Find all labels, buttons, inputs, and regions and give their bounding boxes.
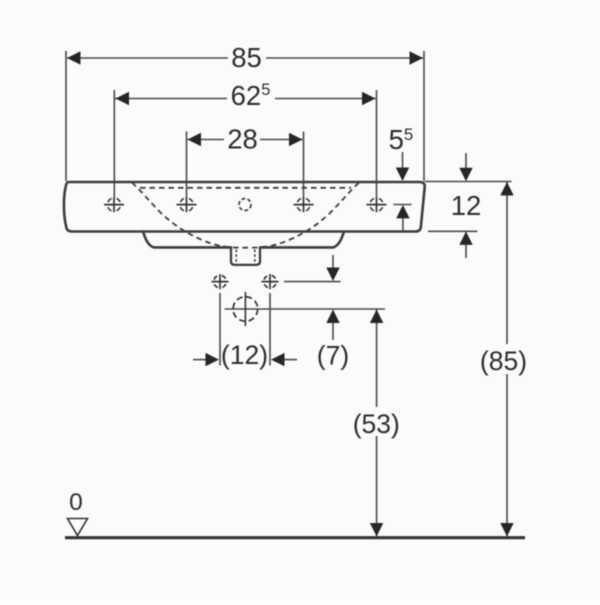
svg-text:28: 28	[227, 124, 258, 155]
svg-text:85: 85	[231, 42, 262, 73]
svg-text:12: 12	[451, 190, 482, 221]
svg-text:(53): (53)	[353, 409, 400, 439]
svg-text:(85): (85)	[480, 346, 527, 376]
svg-text:(12): (12)	[221, 340, 268, 370]
svg-text:0: 0	[69, 489, 83, 516]
svg-text:(7): (7)	[317, 341, 349, 371]
